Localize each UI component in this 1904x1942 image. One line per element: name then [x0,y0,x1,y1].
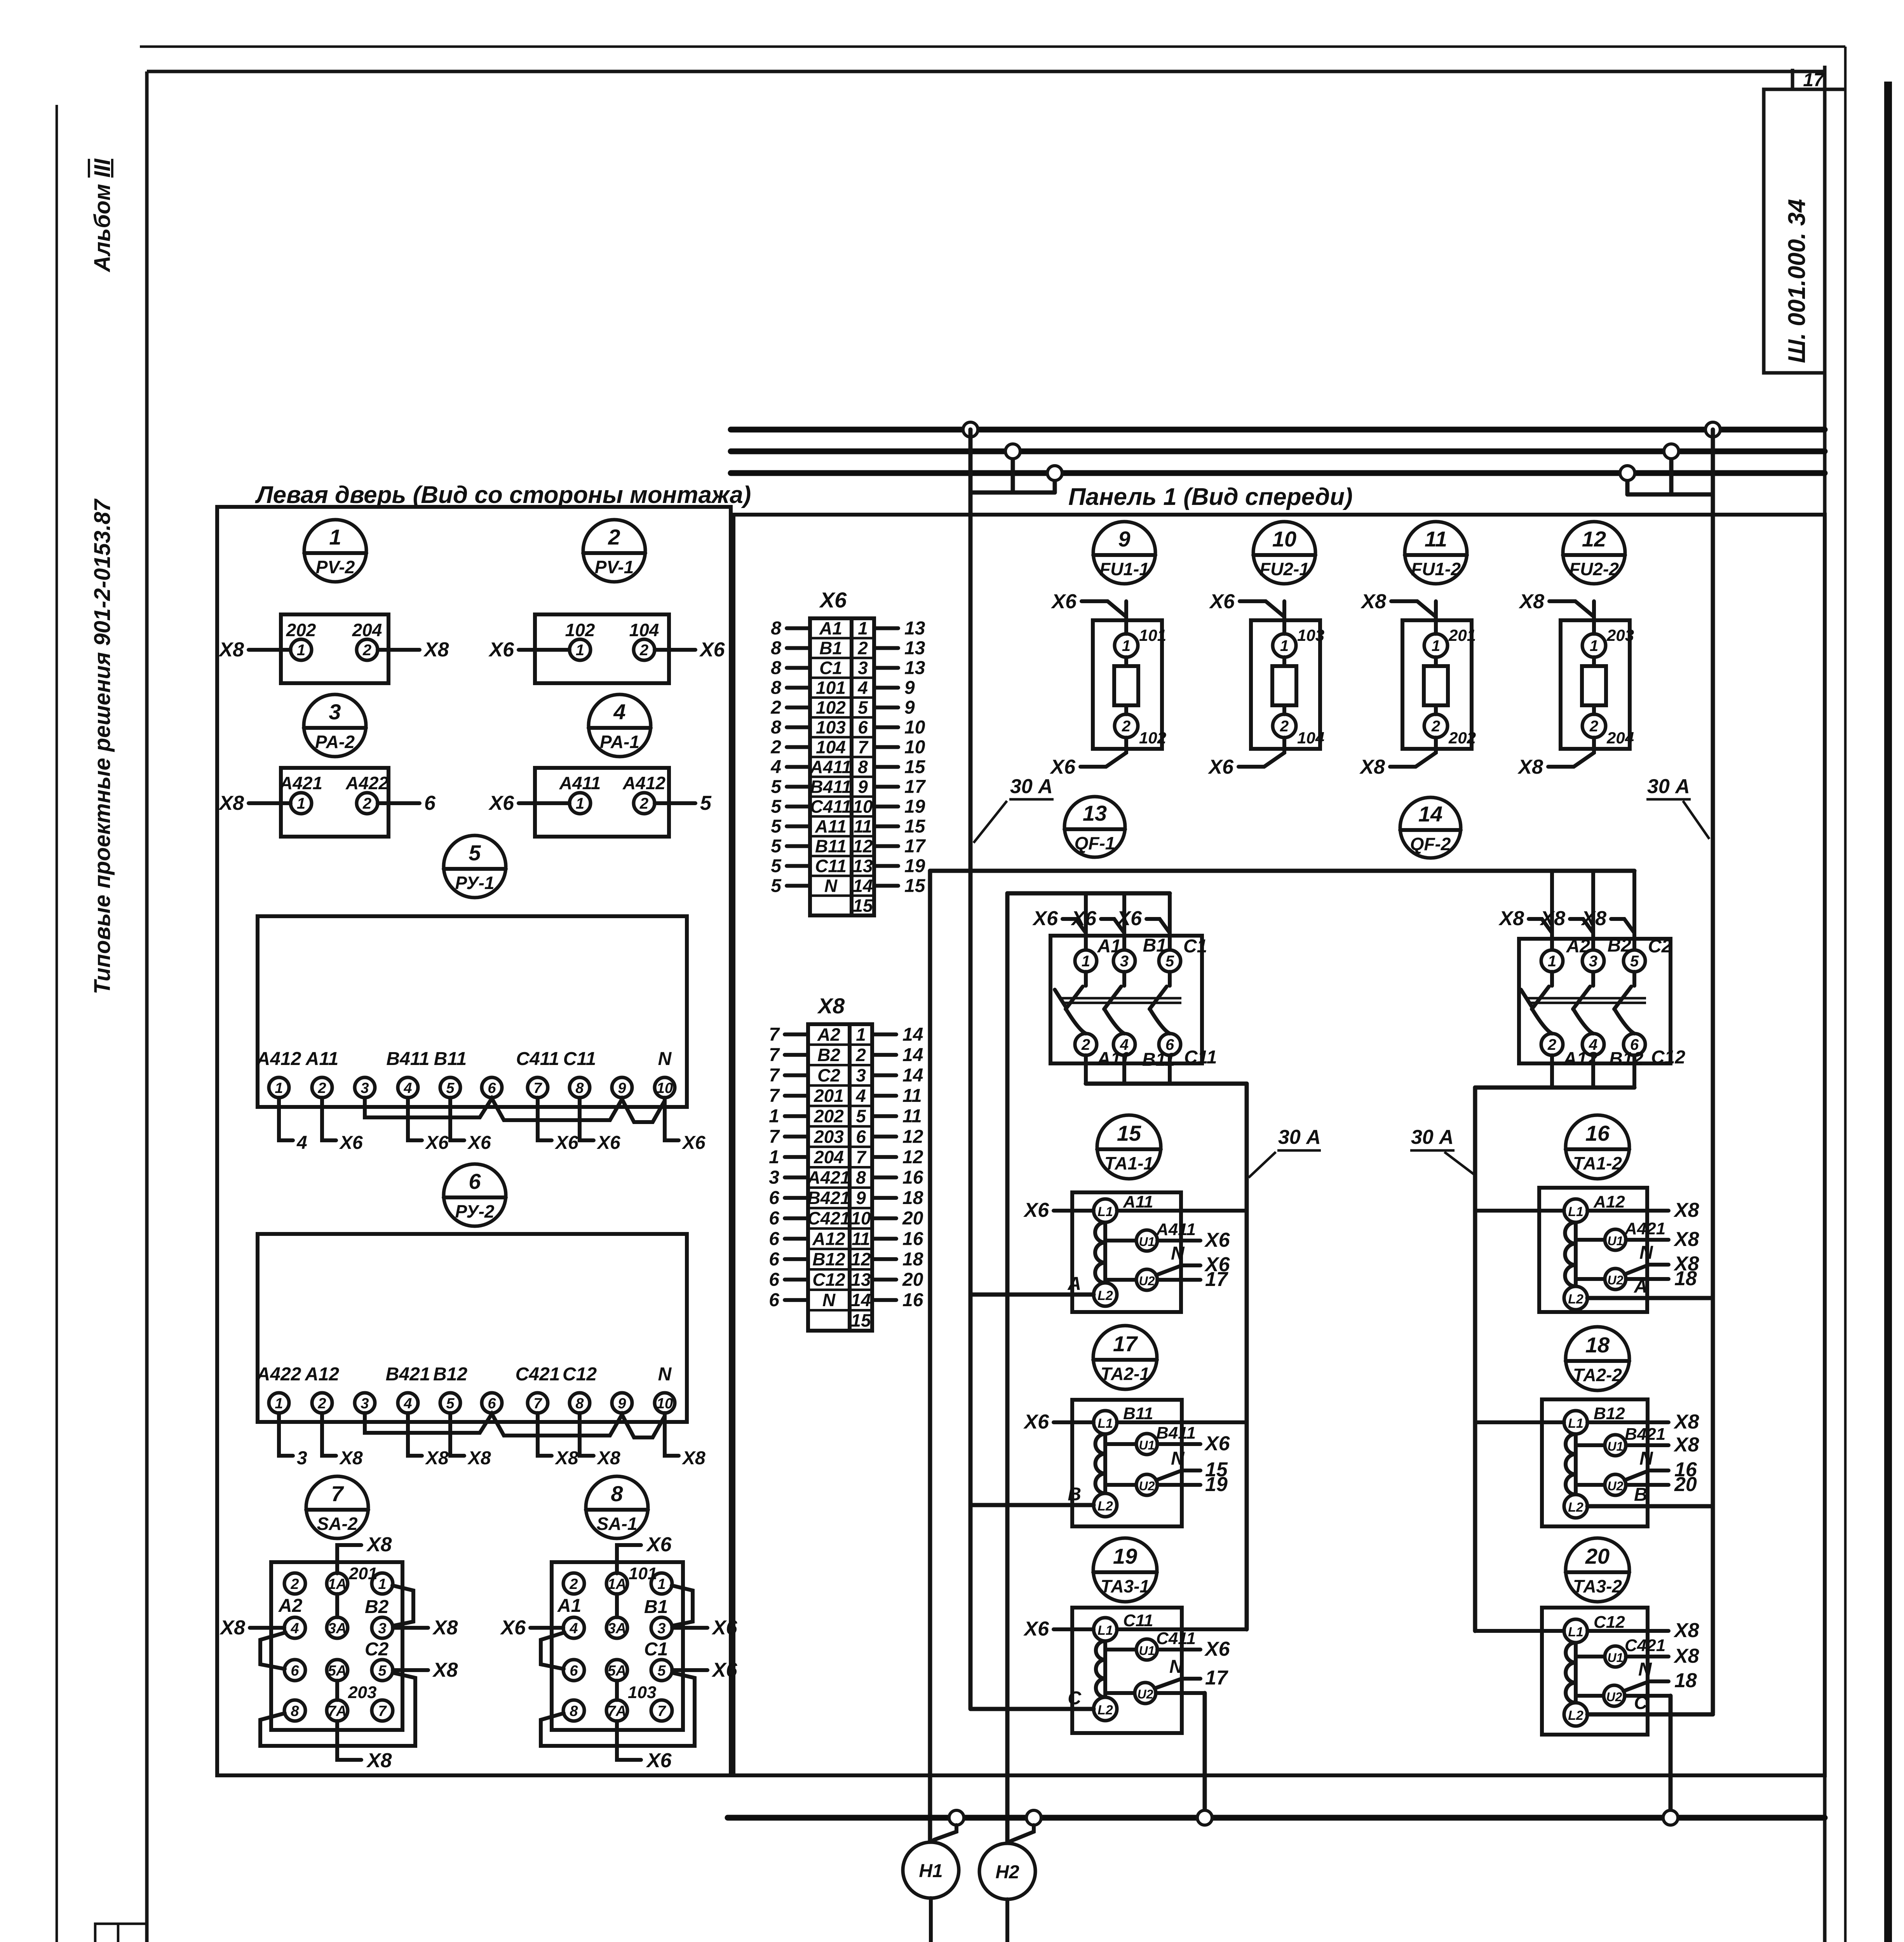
svg-text:14: 14 [902,1065,923,1086]
svg-text:6: 6 [769,1208,779,1229]
svg-text:Х6: Х6 [681,1133,706,1153]
svg-text:17: 17 [904,836,926,857]
svg-text:1: 1 [378,1576,386,1592]
junction dots on bottom bus [949,1810,1678,1825]
svg-text:8: 8 [291,1703,299,1719]
svg-text:3: 3 [657,1620,665,1637]
svg-text:203: 203 [348,1683,376,1702]
svg-text:203: 203 [814,1126,844,1147]
svg-text:Х6: Х6 [1116,907,1142,930]
svg-text:С411: С411 [810,797,852,817]
svg-text:В2: В2 [1608,935,1632,956]
svg-text:1А: 1А [608,1576,627,1592]
left margin rotated inventory strip [95,1924,147,1942]
svg-text:Х6: Х6 [1204,1638,1230,1660]
svg-text:Х6: Х6 [1070,907,1097,930]
svg-text:4: 4 [290,1620,299,1637]
svg-text:201: 201 [348,1564,377,1583]
svg-text:U2: U2 [1139,1479,1155,1493]
svg-text:Х8: Х8 [681,1448,706,1469]
svg-text:Х8: Х8 [423,639,449,661]
svg-text:11: 11 [854,816,872,837]
svg-text:7А: 7А [328,1703,347,1719]
svg-text:2: 2 [1081,1036,1090,1053]
svg-text:4: 4 [296,1133,307,1153]
svg-text:В421: В421 [1625,1425,1665,1444]
svg-text:30 А: 30 А [1411,1126,1454,1148]
svg-text:Х6: Х6 [1032,907,1058,930]
svg-text:104: 104 [816,737,846,757]
lamp H1 [896,1825,959,1942]
svg-text:SA-2: SA-2 [317,1514,358,1534]
svg-text:Х6: Х6 [819,588,847,612]
svg-text:5: 5 [771,777,782,797]
svg-text:С11: С11 [1123,1611,1153,1630]
svg-text:18: 18 [902,1249,923,1270]
svg-text:5А: 5А [608,1663,627,1679]
svg-text:А411: А411 [810,757,852,777]
svg-text:FU2-2: FU2-2 [1569,559,1619,579]
svg-text:С411: С411 [1156,1629,1196,1648]
svg-text:Х6: Х6 [1207,756,1234,778]
svg-text:1: 1 [769,1147,779,1168]
svg-text:15: 15 [904,757,926,778]
svg-text:8: 8 [771,658,781,679]
svg-text:9: 9 [904,678,915,698]
svg-text:20: 20 [1585,1544,1610,1568]
svg-text:Х8: Х8 [467,1448,491,1469]
svg-text:U1: U1 [1139,1644,1155,1658]
svg-text:15: 15 [1117,1121,1141,1145]
right bus tap junction dots and collector [1620,422,1720,494]
svg-text:2: 2 [1547,1036,1556,1053]
svg-text:В2: В2 [365,1597,389,1617]
svg-text:РА-2: РА-2 [315,732,355,752]
SA-2 switch contact block [219,1533,458,1772]
svg-text:Х6: Х6 [1049,756,1076,778]
current transformer TA2-1 [970,1400,1247,1526]
svg-text:5: 5 [1630,953,1639,970]
SA-1 switch contact block [500,1533,737,1772]
fuse FU2-2 with terminals 1,2 [1517,590,1634,778]
svg-text:19: 19 [1205,1473,1228,1496]
svg-text:10: 10 [853,797,873,817]
svg-text:12: 12 [902,1147,923,1168]
svg-text:1: 1 [329,525,341,549]
svg-text:3: 3 [378,1620,386,1637]
svg-text:6: 6 [769,1229,779,1249]
svg-text:2: 2 [1122,718,1131,735]
svg-text:19: 19 [904,797,925,817]
svg-text:13: 13 [853,856,873,876]
fuse ref circle 11 FU1-2 [1405,522,1467,584]
svg-text:С2: С2 [365,1639,389,1660]
main left feeder drop wire from bus [969,430,973,1708]
svg-text:ТА1-1: ТА1-1 [1104,1153,1153,1173]
svg-text:10: 10 [851,1208,871,1229]
svg-text:18: 18 [1674,1267,1697,1290]
svg-text:9: 9 [856,1188,866,1208]
svg-text:N: N [1169,1657,1183,1677]
svg-text:А1: А1 [1097,936,1121,957]
RU-2 lower jumper chain wire 3-6-9-10 [365,1413,665,1437]
svg-text:8: 8 [575,1396,584,1412]
svg-text:204: 204 [814,1147,844,1167]
svg-text:Х6: Х6 [488,792,514,814]
svg-text:1: 1 [275,1396,283,1412]
svg-text:А1: А1 [819,618,842,639]
svg-text:12: 12 [902,1126,923,1147]
svg-text:104: 104 [629,620,659,640]
svg-text:N: N [1171,1448,1185,1469]
svg-text:103: 103 [628,1683,656,1702]
svg-text:7: 7 [858,737,869,757]
supply bus line 3 [731,470,1825,476]
CT ref circle 16 TA1-2 [1566,1115,1629,1179]
svg-text:1А: 1А [328,1576,347,1592]
svg-text:8: 8 [771,618,781,639]
svg-text:Н1: Н1 [919,1861,942,1881]
svg-text:6: 6 [769,1249,779,1270]
svg-text:N: N [1639,1448,1653,1469]
distribution wire A to QF-2 [930,869,1634,873]
svg-text:А412: А412 [622,773,665,793]
fuse FU1-1 with terminals 1,2 [1049,590,1166,778]
svg-text:Х6: Х6 [1023,1199,1049,1222]
svg-text:А12: А12 [1593,1192,1625,1211]
svg-text:L2: L2 [1568,1500,1583,1515]
svg-text:С2: С2 [1648,936,1672,957]
left door outline box [217,507,731,1775]
RU-2 outgoing wires to X8 [279,1413,706,1469]
svg-text:10: 10 [657,1396,673,1412]
breaker ref circle 13 QF-1 [1064,797,1125,857]
svg-text:14: 14 [902,1045,923,1065]
svg-text:А422: А422 [256,1364,301,1385]
svg-text:А: А [1067,1274,1081,1294]
svg-text:5: 5 [771,856,782,877]
svg-text:L2: L2 [1097,1499,1113,1514]
svg-text:В411: В411 [1156,1423,1196,1443]
svg-text:1: 1 [1280,637,1289,654]
svg-text:Х8: Х8 [1517,756,1543,778]
svg-text:2: 2 [362,642,371,659]
svg-text:L1: L1 [1097,1204,1113,1219]
svg-text:10: 10 [904,737,925,758]
svg-text:9: 9 [1118,527,1130,551]
svg-text:4: 4 [855,1086,866,1106]
RU-1 relay box with terminals 1..10 [256,916,687,1107]
svg-text:С12: С12 [563,1364,597,1385]
svg-text:30 А: 30 А [1647,775,1690,798]
svg-text:101: 101 [1139,626,1166,644]
left margin rotated title: Типовые проектные решения [90,158,115,994]
svg-text:L2: L2 [1568,1708,1583,1723]
svg-text:А421: А421 [807,1168,850,1188]
circuit breaker QF-1 terminals 1..6 [1032,893,1217,1070]
svg-text:РУ-2: РУ-2 [455,1201,495,1222]
svg-text:11: 11 [902,1106,922,1127]
svg-text:РА-1: РА-1 [600,732,639,752]
svg-text:В411: В411 [386,1049,429,1069]
svg-text:Х6: Х6 [554,1133,578,1153]
svg-text:С1: С1 [1183,936,1207,957]
svg-text:Х8: Х8 [1673,1619,1699,1642]
CT ref circle 20 TA3-2 [1566,1538,1629,1602]
svg-text:ТА3-1: ТА3-1 [1101,1576,1150,1596]
svg-text:U2: U2 [1608,1273,1624,1287]
svg-text:18: 18 [902,1188,923,1208]
PA-1 terminal box with terminals 1,2 wires A411/A412 [488,768,712,837]
svg-text:9: 9 [618,1080,626,1096]
svg-text:5А: 5А [328,1663,347,1679]
svg-text:7: 7 [657,1703,666,1719]
QF-2 output cable wire down to transformers [1475,1055,1634,1631]
RU-1 lower jumper chain wire 3-6-9-10 [365,1098,665,1122]
svg-text:QF-1: QF-1 [1075,833,1115,853]
svg-text:102: 102 [1139,729,1166,747]
svg-text:В1: В1 [644,1597,668,1617]
svg-text:Панель 1 (Вид спереди): Панель 1 (Вид спереди) [1068,484,1353,510]
svg-text:3: 3 [361,1396,369,1412]
device 1 PV-2 voltmeter symbol [304,520,366,582]
svg-text:16: 16 [1585,1121,1610,1145]
svg-text:4: 4 [857,678,868,698]
svg-text:L1: L1 [1097,1416,1113,1431]
svg-text:Х8: Х8 [218,792,244,814]
svg-text:2: 2 [317,1080,326,1096]
svg-text:17: 17 [1803,70,1825,90]
svg-text:С12: С12 [812,1270,845,1290]
svg-text:203: 203 [1606,626,1634,644]
svg-text:6: 6 [488,1396,496,1412]
device 7 SA-2 switch [306,1476,368,1538]
PA-2 terminal box with terminals 1,2 wires A421/A422 [218,768,436,837]
svg-text:С421: С421 [1625,1636,1665,1655]
svg-text:3А: 3А [608,1620,627,1637]
svg-text:17: 17 [1205,1667,1228,1689]
svg-text:3: 3 [856,1065,866,1086]
svg-text:В421: В421 [386,1364,430,1385]
svg-text:7А: 7А [608,1703,627,1719]
svg-text:А2: А2 [1566,936,1590,957]
supply bus line 1 [731,427,1825,433]
device 8 SA-1 switch [586,1476,648,1538]
svg-text:9: 9 [618,1396,626,1412]
svg-text:Х8: Х8 [1673,1645,1699,1667]
svg-text:ТА2-1: ТА2-1 [1101,1364,1150,1384]
svg-text:Типовые проектные решения 9: Типовые проектные решения 901-2-0153.87 [90,498,115,994]
current transformer TA1-1 [970,1192,1247,1312]
svg-text:Х8: Х8 [554,1448,578,1469]
svg-text:А421: А421 [279,773,322,793]
svg-text:2: 2 [770,737,781,758]
svg-text:С11: С11 [563,1049,596,1069]
svg-text:12: 12 [1582,527,1606,551]
svg-text:Х6: Х6 [1204,1432,1230,1455]
svg-text:15: 15 [904,816,926,837]
svg-text:7: 7 [769,1086,780,1106]
svg-text:L1: L1 [1097,1623,1113,1638]
svg-text:Н2: Н2 [995,1862,1019,1883]
svg-text:5: 5 [469,840,481,865]
svg-text:Х8: Х8 [1673,1199,1699,1222]
svg-text:N: N [1638,1659,1652,1680]
svg-text:С2: С2 [817,1065,840,1086]
svg-text:17: 17 [1205,1268,1228,1291]
svg-text:2: 2 [639,795,648,812]
svg-text:5: 5 [771,797,782,817]
svg-text:1: 1 [769,1106,779,1127]
PV-1 terminal box with terminals 1,2 wires 102/104 [488,614,725,683]
svg-text:С: С [1068,1688,1082,1709]
svg-text:3: 3 [769,1168,779,1188]
svg-text:3: 3 [858,658,868,678]
svg-text:7: 7 [331,1481,344,1506]
svg-text:6: 6 [769,1290,779,1310]
svg-text:10: 10 [657,1080,673,1096]
svg-text:7: 7 [769,1045,780,1065]
svg-text:12: 12 [853,836,873,856]
svg-text:С11: С11 [1184,1047,1217,1068]
svg-text:6: 6 [291,1663,299,1679]
device 4 PA-1 ammeter symbol [589,694,651,757]
svg-text:1: 1 [297,795,305,812]
current transformer TA3-1 [970,1608,1247,1818]
svg-text:2: 2 [770,698,781,718]
svg-text:16: 16 [902,1229,923,1249]
svg-text:В11: В11 [434,1049,467,1069]
svg-text:19: 19 [904,856,925,877]
svg-text:А11: А11 [1123,1192,1153,1211]
svg-text:13: 13 [1083,801,1107,825]
svg-text:8: 8 [570,1703,578,1719]
QF-1 output cable wire down to transformers [1086,1055,1247,1629]
panel 1 outline box [733,515,1825,1775]
svg-text:U1: U1 [1139,1438,1155,1452]
svg-text:19: 19 [1113,1544,1137,1568]
svg-text:L2: L2 [1097,1288,1113,1303]
svg-text:А411: А411 [1156,1220,1196,1239]
svg-text:4: 4 [403,1396,412,1412]
svg-text:Х8: Х8 [425,1448,449,1469]
svg-text:А2: А2 [278,1596,303,1616]
svg-text:С12: С12 [1594,1613,1625,1632]
svg-text:Х6: Х6 [500,1617,526,1639]
svg-text:1: 1 [275,1080,283,1096]
svg-text:103: 103 [816,717,846,738]
svg-text:5: 5 [858,698,868,718]
svg-text:С421: С421 [516,1364,560,1385]
svg-text:Х6: Х6 [1023,1618,1049,1640]
svg-text:Х8: Х8 [1360,590,1386,613]
svg-text:9: 9 [904,698,915,718]
svg-text:L1: L1 [1568,1625,1583,1639]
svg-text:В12: В12 [1609,1049,1643,1069]
lamp H2 [972,1825,1035,1942]
svg-text:5: 5 [771,836,782,857]
svg-text:2: 2 [317,1396,326,1412]
svg-text:6: 6 [424,792,436,814]
svg-text:L2: L2 [1568,1292,1583,1307]
svg-text:15: 15 [853,896,873,916]
svg-text:16: 16 [902,1168,923,1188]
svg-text:В2: В2 [817,1045,840,1065]
svg-text:1: 1 [1548,953,1556,970]
svg-text:SA-1: SA-1 [597,1514,638,1534]
svg-text:U1: U1 [1139,1235,1155,1249]
svg-text:2: 2 [608,525,620,549]
svg-text:14: 14 [1418,802,1442,826]
svg-text:А12: А12 [812,1229,845,1249]
svg-text:6: 6 [488,1080,496,1096]
svg-text:13: 13 [904,658,925,679]
svg-text:Левая дверь (Вид со стороны мо: Левая дверь (Вид со стороны монтажа) [255,482,751,508]
svg-text:101: 101 [816,678,846,698]
svg-text:202: 202 [814,1106,844,1126]
svg-text:Х8: Х8 [218,639,244,661]
svg-text:2: 2 [639,642,648,659]
svg-text:18: 18 [1585,1333,1610,1357]
svg-text:С421: С421 [808,1208,850,1229]
svg-text:А: А [1634,1276,1648,1297]
svg-text:U1: U1 [1608,1651,1624,1665]
svg-text:L2: L2 [1097,1703,1113,1718]
svg-text:7: 7 [378,1703,387,1719]
svg-text:2: 2 [1589,718,1598,735]
main right feeder drop wire from bus [1711,430,1715,1713]
svg-text:U1: U1 [1608,1234,1624,1248]
svg-text:2: 2 [857,638,868,658]
svg-text:С411: С411 [516,1049,559,1069]
svg-text:2: 2 [362,795,371,812]
svg-text:В411: В411 [810,777,852,797]
svg-text:В1: В1 [1143,935,1167,956]
svg-text:В12: В12 [1594,1404,1625,1423]
svg-text:В: В [1634,1484,1648,1505]
svg-text:2: 2 [855,1045,866,1065]
svg-text:104: 104 [1297,729,1324,747]
svg-text:6: 6 [469,1169,481,1194]
svg-text:N: N [822,1290,836,1310]
svg-text:20: 20 [1674,1473,1697,1496]
svg-text:20: 20 [902,1270,923,1290]
svg-text:3: 3 [1589,953,1597,970]
svg-text:РУ-1: РУ-1 [455,873,495,893]
svg-text:4: 4 [569,1620,578,1637]
svg-text:11: 11 [902,1086,922,1106]
svg-text:А411: А411 [559,773,601,793]
svg-text:Х6: Х6 [1050,590,1077,613]
svg-text:Х8: Х8 [1359,756,1385,778]
svg-text:3: 3 [329,700,341,724]
svg-text:Х8: Х8 [339,1448,363,1469]
lamp H2 feeder wire [1005,893,1010,1844]
svg-text:Х8: Х8 [432,1617,458,1639]
svg-text:204: 204 [1606,729,1634,747]
svg-text:7: 7 [769,1065,780,1086]
svg-text:Ш. 001.000. 34: Ш. 001.000. 34 [1784,199,1810,363]
svg-text:U2: U2 [1139,1274,1155,1288]
current transformer TA2-2 [1475,1399,1713,1526]
CT ref circle 18 TA2-2 [1566,1327,1629,1390]
svg-text:8: 8 [771,678,781,698]
svg-text:8: 8 [771,717,781,738]
svg-text:1: 1 [858,618,868,639]
svg-text:10: 10 [904,717,925,738]
svg-text:202: 202 [1448,729,1476,747]
svg-text:5: 5 [700,792,712,814]
